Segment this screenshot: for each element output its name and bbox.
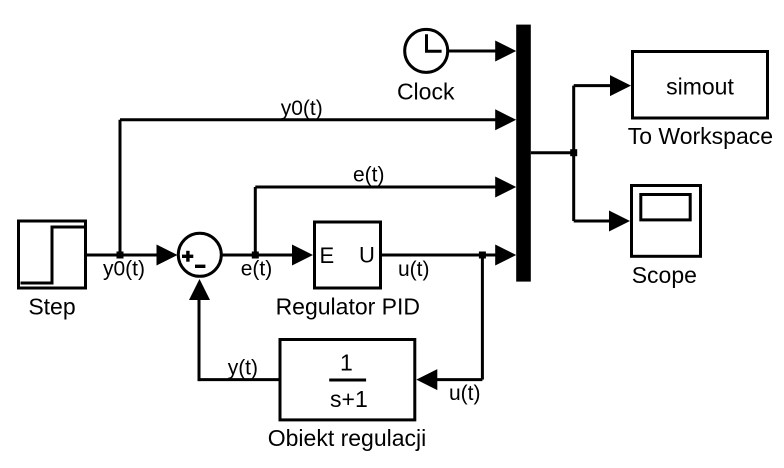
svg-text:1: 1	[340, 350, 353, 376]
wire Clock to Mux	[448, 41, 516, 62]
wire y0 branch up and right to Mux	[120, 109, 516, 256]
junction on u(t) wire	[479, 252, 486, 259]
junction on e(t) wire	[252, 252, 259, 259]
wire Mux output	[531, 151, 574, 154]
svg-text:simout: simout	[666, 73, 734, 99]
svg-text:u(t): u(t)	[398, 258, 430, 281]
block Scope	[632, 186, 701, 257]
svg-text:Step: Step	[28, 294, 75, 320]
wire Regulator PID to Mux	[382, 245, 516, 266]
svg-text:E: E	[319, 243, 334, 268]
junction on Step output	[117, 252, 124, 259]
mux bar	[516, 25, 531, 282]
svg-text:y(t): y(t)	[228, 357, 258, 380]
svg-text:Scope: Scope	[632, 262, 697, 288]
svg-text:e(t): e(t)	[241, 258, 273, 281]
wire plant output to Sum (feedback)	[189, 279, 279, 381]
sum block	[178, 233, 221, 276]
block simout (To Workspace)	[633, 52, 768, 119]
svg-text:U: U	[359, 243, 375, 268]
svg-text:u(t): u(t)	[449, 382, 481, 405]
block Clock	[405, 29, 448, 72]
svg-text:e(t): e(t)	[353, 164, 385, 187]
block Regulator PID	[315, 222, 381, 288]
svg-text:Regulator PID: Regulator PID	[276, 293, 420, 319]
svg-text:To Workspace: To Workspace	[628, 123, 773, 149]
block Step	[19, 221, 86, 288]
wire u branch down and left to plant	[416, 255, 482, 390]
block Obiekt regulacji (transfer fcn 1/(s+1))	[280, 340, 415, 420]
svg-text:y0(t): y0(t)	[103, 257, 145, 280]
svg-text:s+1: s+1	[330, 386, 368, 412]
wire branch down to Scope	[574, 151, 630, 231]
wire branch up to simout	[574, 75, 631, 154]
wire Step to Sum	[87, 245, 178, 266]
svg-text:Obiekt regulacji: Obiekt regulacji	[268, 425, 427, 451]
junction on mux output	[570, 149, 577, 156]
wire Sum to Regulator PID	[221, 245, 313, 266]
svg-text:Clock: Clock	[397, 79, 455, 105]
svg-text:y0(t): y0(t)	[281, 97, 323, 120]
wire e branch up and right to Mux	[255, 177, 516, 257]
